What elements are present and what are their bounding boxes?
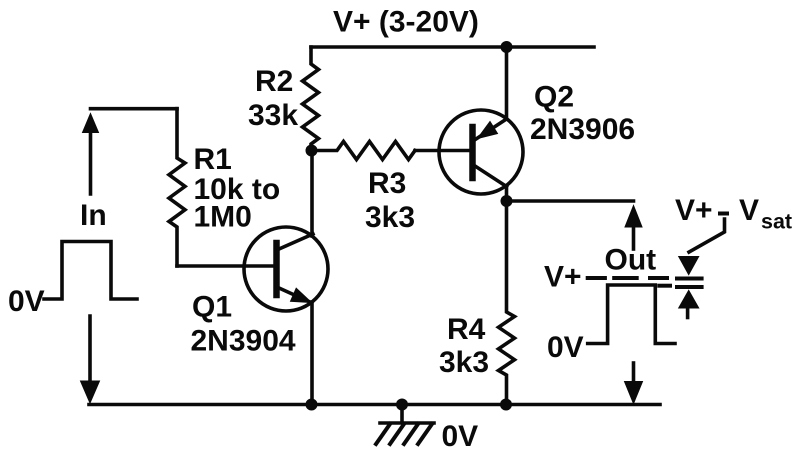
label 0V input bbox=[8, 285, 45, 318]
svg-text:0V: 0V bbox=[442, 420, 479, 453]
value 33k bbox=[248, 99, 298, 132]
value 2N3906 bbox=[530, 113, 635, 146]
svg-text:sat: sat bbox=[761, 210, 792, 234]
label In bbox=[80, 199, 107, 232]
svg-text:R4: R4 bbox=[447, 313, 486, 346]
dash at pulse top right bbox=[659, 284, 670, 288]
svg-text:33k: 33k bbox=[248, 99, 298, 132]
output arrow up bbox=[625, 206, 642, 250]
ground symbol bbox=[376, 405, 434, 445]
value 3k3 bbox=[365, 201, 415, 234]
value 10k to bbox=[194, 173, 281, 206]
svg-text:R3: R3 bbox=[368, 167, 406, 200]
output arrow down to rail bbox=[625, 363, 643, 404]
label 0V ground bbox=[442, 420, 479, 453]
gap upper bar bbox=[677, 277, 702, 281]
wire R3 to Q2 base bbox=[415, 149, 470, 153]
svg-text:Q1: Q1 bbox=[192, 291, 232, 324]
input pulse waveform bbox=[44, 242, 137, 300]
wire output bbox=[507, 199, 634, 203]
label Out bbox=[605, 244, 657, 277]
label R2 bbox=[255, 65, 293, 98]
label Q2 bbox=[534, 81, 574, 114]
label R3 bbox=[368, 167, 406, 200]
label V+ output level bbox=[544, 261, 582, 294]
gap arrow down bbox=[679, 257, 699, 275]
transistor Q2 2N3906 bbox=[439, 110, 523, 194]
label R4 bbox=[447, 313, 486, 346]
svg-text:V+: V+ bbox=[675, 194, 713, 227]
resistor R4 bbox=[499, 201, 515, 405]
svg-text:0V: 0V bbox=[8, 285, 45, 318]
node R4 bottom on rail bbox=[500, 399, 512, 411]
svg-text:3k3: 3k3 bbox=[439, 346, 489, 379]
node top rail Q2 emitter bbox=[501, 41, 513, 53]
label V+ minus Vsat bbox=[675, 194, 792, 234]
wire top V+ supply rail bbox=[311, 45, 594, 49]
label Q1 bbox=[192, 291, 232, 324]
wire Q1 base bbox=[177, 264, 274, 268]
input arrow down to ground rail bbox=[81, 316, 100, 403]
node B: Q2 collector, R4, output bbox=[501, 195, 513, 207]
resistor R3 bbox=[312, 142, 416, 160]
value 1M0 bbox=[194, 201, 252, 234]
svg-text:Out: Out bbox=[605, 244, 657, 277]
wire Q2 emitter to rail bbox=[505, 47, 509, 119]
svg-text:2N3906: 2N3906 bbox=[530, 113, 635, 146]
dashed V+ level line bbox=[588, 276, 667, 280]
input arrow up bbox=[83, 114, 99, 195]
wire bottom ground rail bbox=[89, 403, 660, 407]
transistor Q1 2N3904 bbox=[244, 227, 328, 311]
value 2N3904 bbox=[191, 325, 296, 358]
pointer line Vsat to gap bbox=[689, 219, 725, 252]
svg-text:3k3: 3k3 bbox=[365, 201, 415, 234]
label 0V output bbox=[547, 331, 584, 364]
node Q1 emitter on rail bbox=[306, 399, 318, 411]
output pulse waveform bbox=[588, 285, 675, 344]
node A: junction of R2, R3, Q1 collector bbox=[306, 145, 318, 157]
svg-text:V+ (3-20V): V+ (3-20V) bbox=[333, 6, 479, 39]
svg-text:Q2: Q2 bbox=[534, 81, 574, 114]
gap lower bar bbox=[677, 285, 702, 289]
svg-text:V+: V+ bbox=[544, 261, 582, 294]
svg-text:1M0: 1M0 bbox=[194, 201, 252, 234]
resistor R1 bbox=[169, 109, 185, 266]
svg-text:2N3904: 2N3904 bbox=[191, 325, 296, 358]
svg-text:R2: R2 bbox=[255, 65, 293, 98]
resistor R2 bbox=[303, 47, 319, 151]
wire node A to Q1 collector bbox=[310, 151, 314, 237]
svg-text:R1: R1 bbox=[194, 143, 232, 176]
wire input top bbox=[91, 107, 178, 111]
label V+ (3-20V) bbox=[333, 6, 479, 39]
value 3k3 R4 bbox=[439, 346, 489, 379]
wire Q2 collector to node B bbox=[505, 186, 509, 201]
svg-text:0V: 0V bbox=[547, 331, 584, 364]
svg-text:V: V bbox=[739, 194, 759, 227]
svg-text:In: In bbox=[80, 199, 107, 232]
gap arrow up with tail bbox=[679, 290, 699, 317]
node ground tap on rail bbox=[396, 399, 408, 411]
label R1 bbox=[194, 143, 232, 176]
wire Q1 emitter to ground rail bbox=[310, 302, 314, 405]
